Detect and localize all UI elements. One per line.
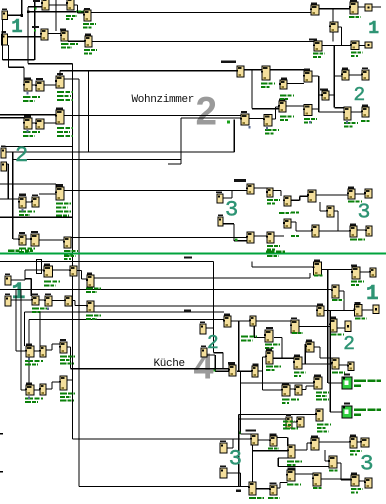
logic block B4	[40, 29, 48, 40]
input port E12	[220, 468, 227, 478]
connector dot	[346, 121, 348, 123]
wire net F	[71, 237, 247, 238]
logic block K82	[315, 409, 323, 421]
connector dot	[27, 130, 29, 132]
green text	[249, 497, 264, 499]
green text	[351, 52, 363, 54]
logic block K77	[313, 377, 322, 389]
wire	[324, 310, 355, 311]
wire to K87	[253, 450, 289, 451]
green text	[265, 347, 275, 349]
wire	[68, 41, 85, 42]
wire	[227, 447, 233, 448]
wire net E2	[0, 217, 73, 218]
wire	[2, 20, 3, 60]
logic block K83	[250, 434, 258, 445]
wire V-bus1	[72, 64, 73, 439]
green text	[294, 372, 306, 374]
wire	[241, 433, 252, 434]
label K45	[44, 264, 50, 266]
wire	[359, 45, 365, 46]
logic block K56	[354, 305, 363, 317]
wire	[9, 67, 25, 68]
green text	[268, 497, 280, 499]
wire net N	[241, 382, 315, 383]
green text	[64, 255, 76, 257]
wire	[81, 271, 82, 280]
logic block K89	[310, 438, 319, 450]
svg-text:3: 3	[358, 201, 371, 225]
wire	[78, 12, 85, 13]
logic block K60	[345, 321, 351, 332]
wire to K90	[278, 466, 329, 467]
logic block K75	[331, 358, 339, 369]
wire	[322, 45, 351, 46]
green text G2b	[354, 414, 361, 416]
wire	[362, 309, 373, 310]
wire	[309, 273, 310, 278]
label K89	[311, 435, 318, 437]
wire	[254, 187, 267, 188]
label K77	[314, 375, 321, 377]
label K58	[291, 317, 297, 319]
wire	[227, 472, 241, 473]
green text	[350, 454, 357, 456]
wire	[320, 210, 327, 211]
label U16	[362, 67, 368, 69]
wire	[46, 349, 52, 350]
wire	[291, 200, 300, 201]
logic block U32	[263, 115, 272, 127]
wire	[339, 364, 348, 365]
logic block U7	[310, 5, 319, 15]
green text	[280, 95, 294, 97]
wire V-334	[334, 46, 335, 108]
wire net to U7	[91, 12, 311, 13]
logic block B3	[83, 10, 91, 21]
wire	[6, 163, 8, 164]
wire V-328	[327, 270, 328, 384]
wire	[74, 4, 78, 5]
wire	[75, 305, 87, 306]
logic block B25	[35, 119, 44, 129]
wire	[59, 71, 60, 76]
wire	[249, 118, 264, 119]
wire	[355, 193, 365, 194]
label K67	[26, 383, 32, 385]
logic block U10	[329, 22, 338, 32]
wire	[305, 386, 306, 390]
green text	[267, 203, 275, 205]
wire	[13, 159, 181, 160]
label B31	[31, 231, 38, 233]
green text	[266, 369, 276, 371]
label K94	[351, 473, 357, 475]
wire	[280, 482, 288, 483]
green mark K77	[238, 432, 241, 435]
green text	[268, 448, 279, 450]
logic block K86	[269, 485, 277, 495]
logic block K78	[281, 385, 290, 396]
label K66	[60, 339, 66, 341]
wire	[339, 290, 344, 291]
green text	[25, 364, 38, 366]
wire	[11, 279, 25, 280]
wire V-330	[330, 311, 331, 413]
wire net L	[29, 319, 224, 320]
wire	[372, 6, 381, 7]
green text	[287, 461, 302, 463]
wire	[8, 164, 9, 199]
wire	[67, 379, 73, 380]
green text	[56, 211, 71, 213]
logic block U19	[343, 107, 351, 120]
green text	[329, 470, 339, 472]
green mark U31	[227, 121, 230, 124]
logic block K47	[86, 275, 94, 287]
wire	[258, 439, 270, 440]
wire	[26, 201, 32, 202]
label U20	[362, 105, 368, 107]
green text	[56, 207, 68, 209]
wire	[281, 338, 282, 359]
logic block U20	[361, 107, 369, 117]
logic block U13	[365, 42, 372, 48]
wire	[312, 75, 319, 76]
wire	[39, 193, 56, 194]
green text	[351, 281, 364, 283]
wire	[24, 270, 25, 280]
wire	[287, 83, 304, 84]
logic block B30	[18, 235, 26, 245]
label G1	[344, 374, 350, 376]
label K48a	[32, 293, 38, 295]
logic block K63	[264, 330, 273, 342]
edge tick	[0, 471, 3, 473]
green text	[361, 120, 371, 122]
green text G2	[354, 409, 381, 411]
green text	[19, 251, 30, 253]
logic block K80	[285, 417, 292, 428]
wire	[0, 198, 19, 199]
green text	[282, 399, 299, 401]
connector dot	[47, 308, 49, 310]
wire net I	[94, 305, 317, 306]
wire	[358, 6, 365, 7]
green text	[261, 83, 275, 85]
logic block B31	[30, 234, 39, 246]
label K88	[288, 467, 296, 469]
wire	[256, 488, 270, 489]
label U11	[309, 38, 317, 40]
wire V at 56	[55, 0, 56, 31]
wire V-238	[238, 415, 239, 487]
wire	[39, 312, 40, 346]
wire	[343, 291, 344, 311]
label K63	[266, 327, 273, 329]
wire	[312, 108, 319, 109]
logic block K85	[269, 436, 277, 446]
wire	[332, 32, 333, 42]
input port E6	[218, 217, 223, 226]
green text	[280, 119, 288, 121]
logic block B2	[66, 0, 74, 10]
green text	[304, 118, 317, 120]
connector dot	[266, 127, 268, 129]
label K78	[282, 383, 289, 385]
input port E7	[5, 276, 11, 285]
wire V-bus3	[88, 71, 89, 152]
logic block B28	[31, 197, 39, 207]
label B6	[85, 34, 91, 36]
wire	[215, 371, 229, 372]
svg-text:3: 3	[225, 198, 238, 223]
logic block U37	[283, 196, 291, 206]
svg-text:2: 2	[354, 84, 366, 106]
green text G1b	[354, 385, 361, 387]
green text	[84, 49, 97, 51]
logic block K48	[44, 296, 52, 306]
logic block K71	[251, 366, 258, 377]
wire	[254, 235, 267, 236]
wire	[51, 344, 52, 350]
label E7	[5, 273, 10, 275]
wire	[274, 235, 284, 236]
logic block B29	[55, 187, 64, 200]
logic block B27	[18, 197, 26, 208]
wire	[349, 74, 362, 75]
wire	[26, 238, 31, 239]
wire	[328, 382, 342, 383]
green text	[56, 203, 71, 205]
label E2	[2, 31, 7, 33]
label K92	[350, 435, 356, 437]
wire	[0, 114, 56, 115]
logic block K87	[287, 445, 295, 458]
logic block B24	[23, 118, 32, 129]
wire	[25, 278, 31, 279]
connector dot	[28, 358, 30, 360]
wire	[23, 67, 24, 80]
wire	[299, 196, 300, 200]
wire	[70, 347, 71, 369]
green text	[44, 285, 56, 287]
logic block U14	[303, 71, 312, 82]
wire	[24, 312, 25, 346]
green text	[66, 15, 77, 17]
green text	[267, 245, 280, 247]
wire	[334, 210, 338, 211]
input port E4	[1, 162, 7, 171]
wire	[360, 271, 370, 272]
svg-text:2: 2	[15, 143, 28, 168]
wire	[28, 63, 73, 64]
green text	[60, 356, 75, 358]
logic block U33b	[246, 184, 254, 194]
wire	[49, 4, 67, 5]
green text	[60, 363, 74, 365]
green text	[64, 254, 74, 256]
label K86	[270, 482, 277, 484]
green text	[332, 299, 344, 301]
wire	[325, 460, 329, 461]
green text	[241, 336, 257, 338]
wire	[214, 355, 215, 371]
green text	[23, 135, 35, 137]
green text	[283, 421, 295, 423]
green text	[23, 96, 40, 98]
wire net P	[239, 418, 286, 419]
wire	[52, 343, 60, 344]
green text	[291, 235, 299, 237]
wire	[318, 76, 319, 112]
green text	[317, 424, 331, 426]
wire	[319, 94, 322, 95]
label K70	[228, 362, 235, 364]
wire	[302, 389, 306, 390]
wire	[277, 487, 280, 488]
wire	[77, 270, 82, 271]
green text	[265, 133, 275, 135]
logic block K50	[86, 301, 94, 312]
wire	[277, 437, 288, 438]
green text	[60, 393, 75, 395]
wire	[28, 6, 42, 7]
green text	[83, 27, 93, 29]
logic block U34b	[246, 232, 254, 243]
wire	[240, 371, 241, 433]
logic block U34	[279, 80, 287, 89]
wire	[273, 358, 294, 359]
green text	[344, 126, 354, 128]
svg-text:3: 3	[229, 447, 242, 472]
green text above separator left2	[25, 250, 33, 252]
wire	[13, 238, 19, 239]
svg-text:2: 2	[343, 333, 355, 355]
logic block K79	[294, 385, 302, 395]
green text	[265, 344, 280, 346]
logic block B26	[55, 110, 64, 124]
green text	[283, 428, 298, 430]
wire	[307, 442, 311, 443]
wire	[206, 327, 214, 328]
logic block K69	[59, 376, 67, 390]
wire V-bus2	[78, 79, 79, 487]
wire	[181, 117, 241, 118]
green text	[280, 116, 294, 118]
wire net B	[60, 70, 237, 71]
wire net G	[0, 261, 214, 262]
green text	[64, 250, 78, 252]
wire	[254, 327, 255, 338]
label U34	[281, 78, 287, 80]
logic block B32	[63, 237, 71, 248]
logic block B1	[41, 0, 49, 10]
input port E9	[200, 324, 206, 334]
wire net H	[94, 277, 310, 278]
green mark U34b	[235, 239, 238, 242]
label U33b	[234, 179, 246, 182]
wire	[263, 389, 283, 390]
wire	[338, 26, 342, 27]
logic block K52	[351, 267, 360, 279]
green text	[313, 56, 321, 58]
label K84	[236, 490, 241, 492]
green text	[351, 284, 359, 286]
wire	[15, 290, 16, 351]
logic block K91	[312, 473, 321, 486]
input port E5	[217, 194, 223, 203]
wire	[51, 382, 52, 389]
wire	[11, 299, 32, 300]
wire net to U11	[92, 41, 314, 42]
logic block K58	[290, 320, 299, 333]
logic block K81	[296, 417, 304, 427]
label K51	[314, 260, 320, 262]
green text	[294, 375, 301, 377]
label K55	[317, 304, 323, 306]
label B5	[60, 29, 66, 31]
wire net A	[28, 11, 84, 12]
green text	[86, 291, 97, 293]
wire net to K58	[256, 320, 291, 321]
wire	[27, 7, 28, 64]
green text	[291, 212, 299, 214]
logic block U33	[278, 101, 286, 112]
wire	[321, 478, 351, 479]
wire	[295, 473, 313, 474]
wire	[300, 196, 308, 197]
wire	[341, 27, 342, 46]
label B26	[56, 108, 63, 110]
wire	[252, 108, 279, 109]
logic block K73	[305, 342, 314, 352]
wire	[279, 483, 280, 489]
logic block U40	[311, 225, 319, 237]
wire	[341, 479, 351, 480]
wire	[262, 357, 263, 390]
label E3	[1, 145, 6, 147]
label K80	[286, 414, 291, 416]
green text	[355, 318, 367, 320]
green text	[57, 135, 73, 137]
logic block U11	[313, 41, 322, 51]
logic block K59	[329, 319, 337, 332]
wire	[319, 441, 350, 442]
green text	[304, 122, 312, 124]
logic block K88	[286, 470, 295, 481]
label G2	[344, 403, 350, 405]
green text	[76, 11, 88, 13]
wire	[337, 211, 338, 231]
logic block K93	[360, 438, 369, 447]
wire	[337, 462, 341, 463]
label B1	[33, 0, 40, 2]
wire	[28, 320, 29, 386]
wire	[231, 320, 250, 321]
label B3	[84, 8, 90, 10]
input port E1	[2, 11, 8, 20]
wire	[291, 221, 296, 222]
junction dot	[27, 11, 29, 13]
wire	[287, 438, 288, 447]
wire	[180, 118, 181, 164]
green text	[60, 400, 74, 402]
wire	[322, 269, 353, 270]
wire	[319, 111, 344, 112]
logic block B6	[84, 36, 92, 47]
marker rectangle	[37, 260, 42, 274]
